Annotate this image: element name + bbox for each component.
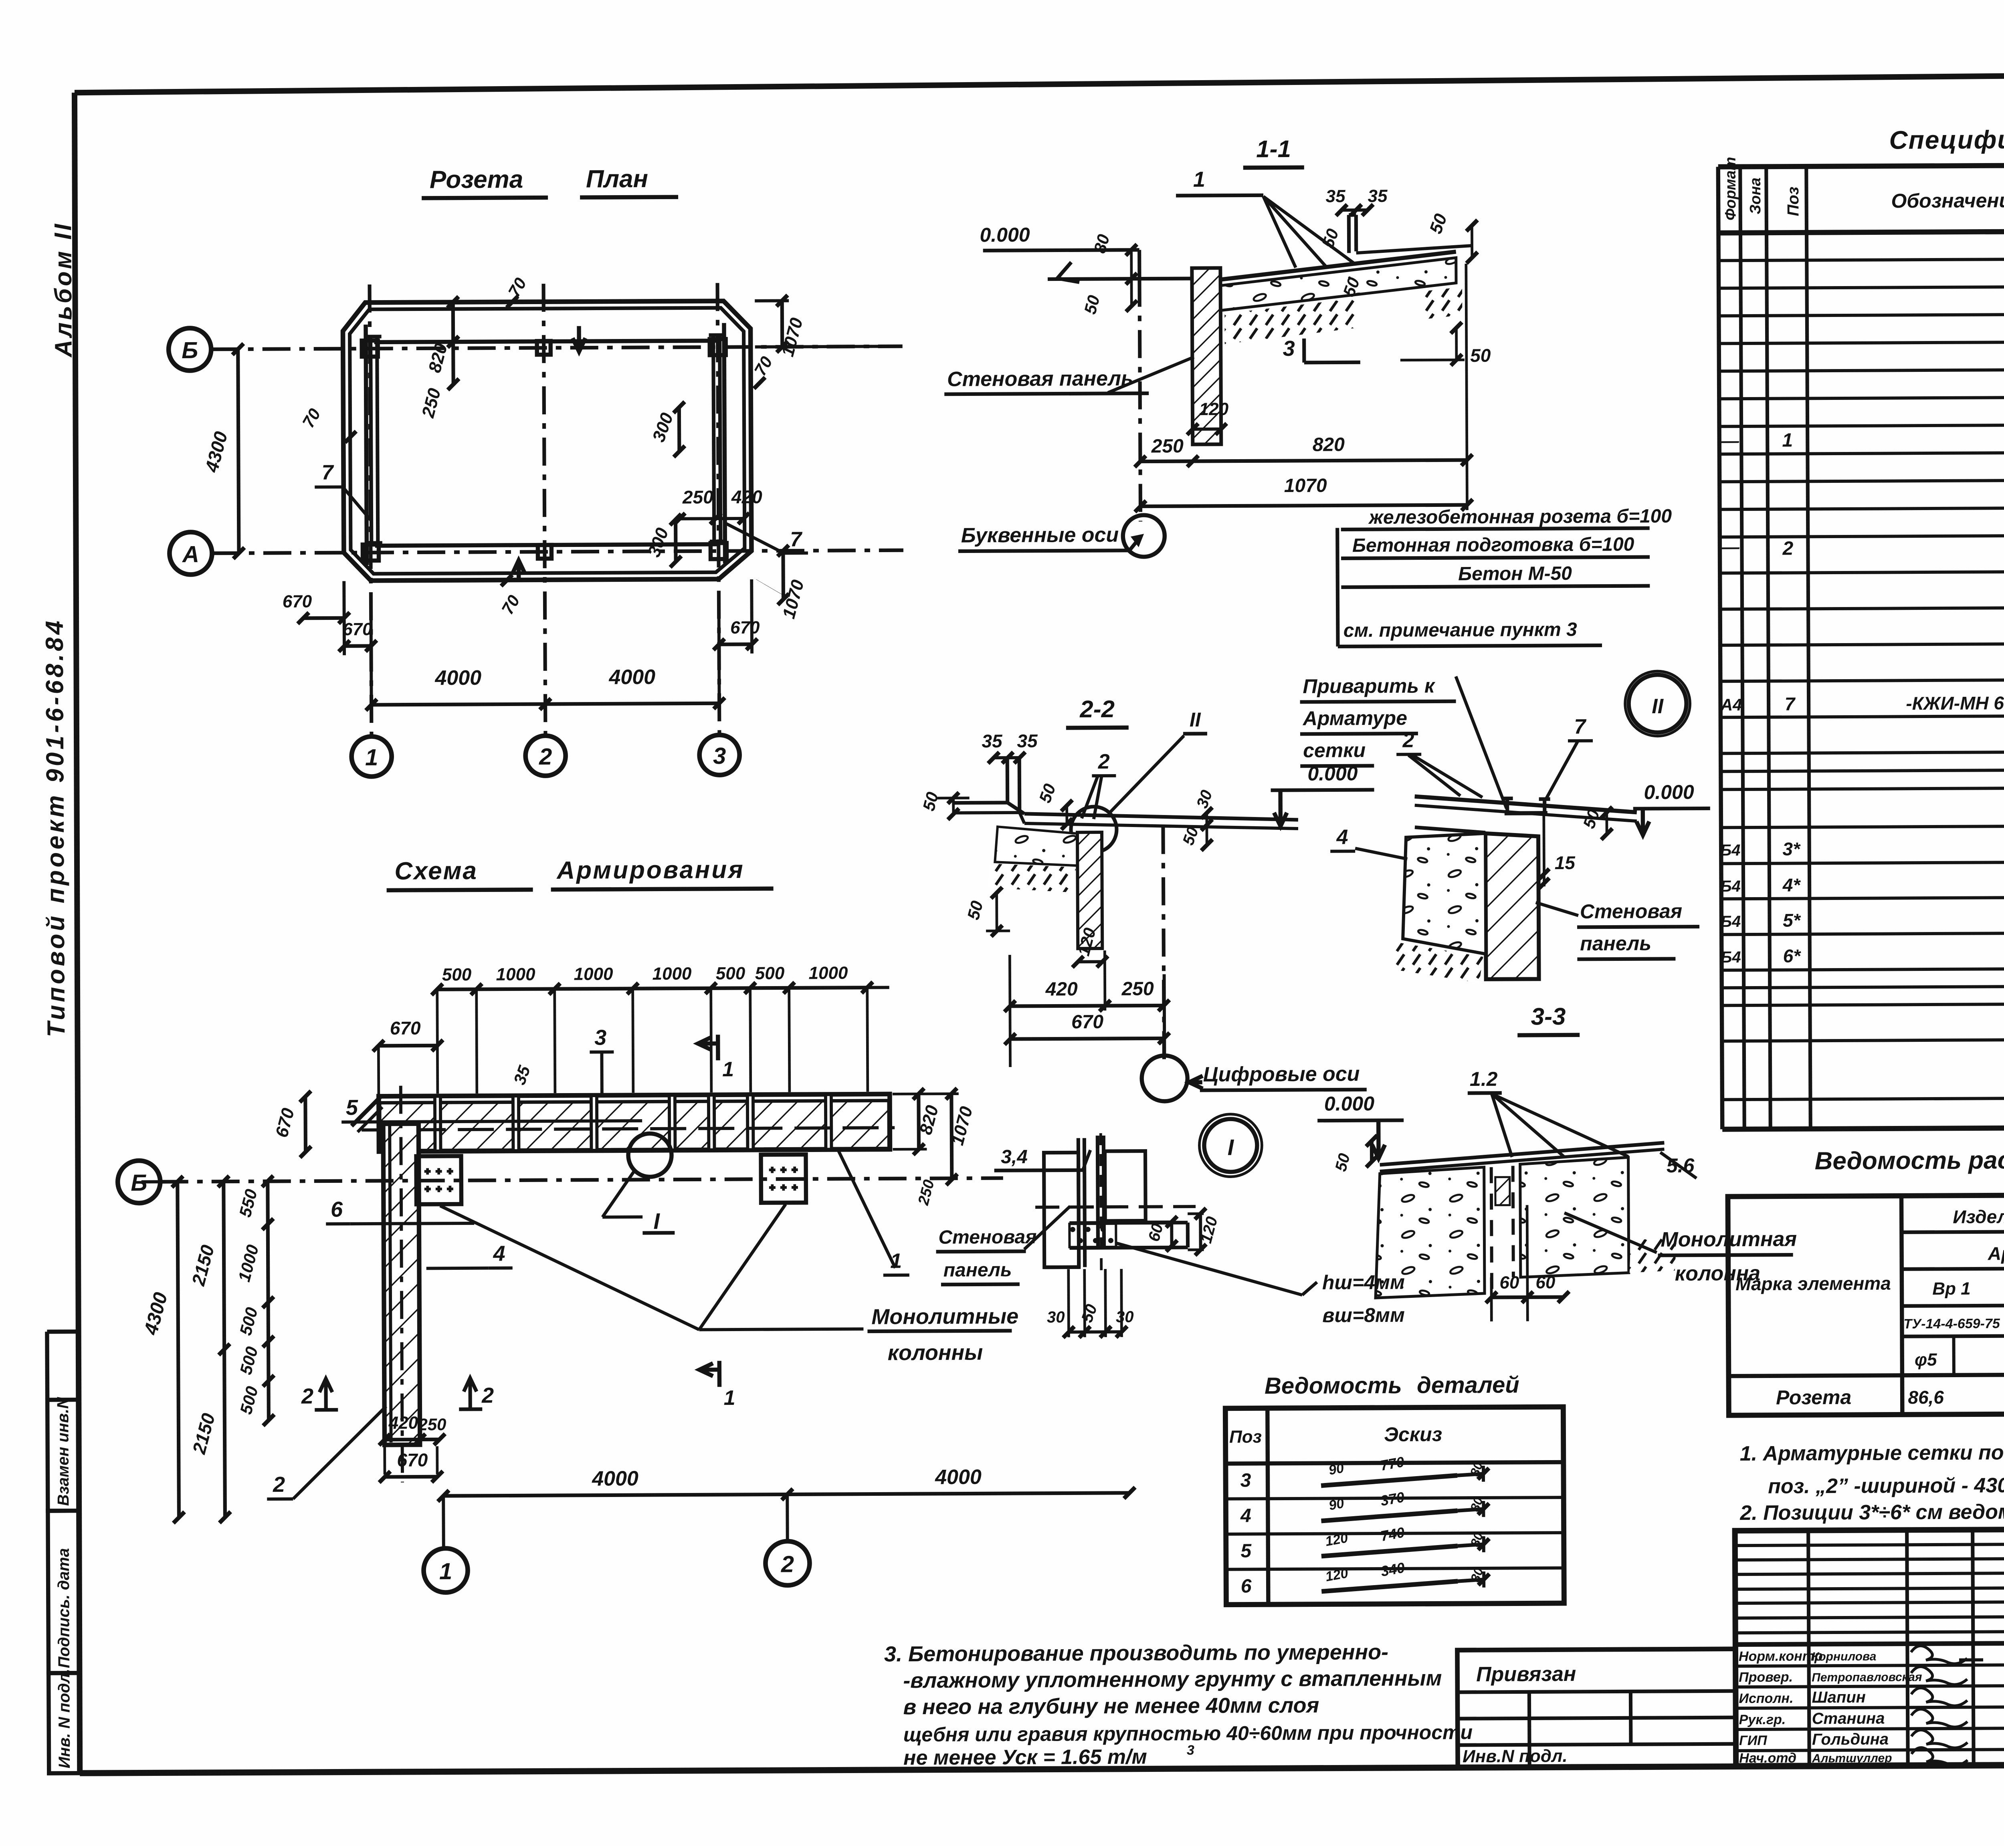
svg-text:4000: 4000: [935, 1465, 982, 1489]
svg-text:1.2: 1.2: [1470, 1068, 1498, 1090]
svg-text:250: 250: [418, 1415, 446, 1434]
svg-text:1000: 1000: [496, 964, 535, 984]
svg-text:Нач.отд: Нач.отд: [1739, 1751, 1796, 1766]
svg-text:2: 2: [1782, 538, 1793, 559]
svg-text:3: 3: [713, 743, 726, 769]
svg-text:4: 4: [1240, 1505, 1251, 1526]
svg-text:вш=8мм: вш=8мм: [1322, 1304, 1405, 1327]
svg-text:Стеновая: Стеновая: [938, 1227, 1036, 1248]
svg-text:Поз: Поз: [1784, 187, 1802, 216]
svg-text:Изделия арматурные: Изделия арматурные: [1953, 1206, 2004, 1227]
svg-text:щебня или гравия крупностью: щебня или гравия крупностью 40÷60мм при …: [903, 1721, 1473, 1746]
svg-text:Зона: Зона: [1747, 178, 1764, 214]
svg-text:500: 500: [716, 964, 745, 983]
svg-text:не менее Уск = 1.65 т/м: не менее Уск = 1.65 т/м: [903, 1745, 1147, 1770]
svg-text:Бетон М-50: Бетон М-50: [1458, 563, 1572, 585]
svg-text:колонны: колонны: [888, 1340, 983, 1365]
svg-text:35: 35: [1326, 186, 1346, 206]
svg-text:0.000: 0.000: [1324, 1092, 1375, 1115]
svg-text:820: 820: [1313, 434, 1345, 455]
svg-text:Стеновая панель: Стеновая панель: [947, 367, 1133, 391]
svg-text:2: 2: [781, 1551, 794, 1577]
svg-text:250: 250: [1151, 436, 1184, 457]
svg-text:5*: 5*: [1783, 910, 1801, 930]
svg-text:50: 50: [1470, 345, 1491, 366]
svg-text:2: 2: [539, 744, 552, 770]
svg-text:4000: 4000: [592, 1467, 638, 1491]
svg-text:деталей: деталей: [1417, 1372, 1519, 1398]
svg-text:—: —: [1721, 537, 1740, 557]
svg-text:см. примечание пункт 3: см. примечание пункт 3: [1343, 619, 1577, 642]
svg-text:2: 2: [273, 1473, 285, 1497]
svg-text:А4: А4: [1720, 695, 1742, 714]
svg-text:Привязан: Привязан: [1476, 1662, 1576, 1686]
svg-text:90: 90: [1327, 1461, 1345, 1478]
svg-text:670: 670: [390, 1017, 421, 1038]
svg-text:Провер.: Провер.: [1739, 1670, 1793, 1685]
svg-text:Арматура класса: Арматура класса: [1988, 1243, 2004, 1264]
svg-text:Розета: Розета: [430, 165, 523, 194]
svg-text:6: 6: [1241, 1576, 1252, 1597]
svg-text:4: 4: [1336, 825, 1348, 849]
svg-text:6: 6: [331, 1197, 343, 1221]
svg-text:250: 250: [682, 486, 713, 507]
svg-text:Схема: Схема: [394, 857, 478, 885]
svg-text:1000: 1000: [808, 963, 848, 983]
svg-text:сетки: сетки: [1303, 739, 1366, 762]
svg-text:1: 1: [722, 1058, 734, 1081]
svg-text:3*: 3*: [1782, 838, 1801, 859]
svg-text:2: 2: [301, 1384, 313, 1408]
svg-text:1: 1: [365, 744, 378, 771]
svg-text:Альбом II: Альбом II: [49, 222, 77, 358]
svg-text:Шапин: Шапин: [1812, 1689, 1866, 1707]
svg-text:670: 670: [730, 618, 760, 638]
svg-text:2: 2: [1402, 729, 1414, 752]
svg-text:Норм.контр: Норм.контр: [1739, 1648, 1823, 1664]
svg-text:Монолитные: Монолитные: [871, 1304, 1018, 1329]
svg-text:Стеновая: Стеновая: [1580, 900, 1682, 923]
svg-text:hш=4мм: hш=4мм: [1322, 1271, 1405, 1294]
svg-text:1000: 1000: [652, 964, 692, 984]
svg-text:86,6: 86,6: [1908, 1387, 1944, 1408]
svg-text:Спецификация: Спецификация: [1889, 125, 2004, 154]
svg-text:Взамен инв.N: Взамен инв.N: [54, 1397, 72, 1506]
svg-text:1-1: 1-1: [1256, 135, 1291, 162]
svg-text:Вр 1: Вр 1: [1932, 1279, 1971, 1299]
svg-text:поз. „2” -шириной - 430мм: поз. „2” -шириной - 430мм: [1768, 1474, 2004, 1498]
svg-text:7: 7: [1785, 693, 1796, 714]
svg-text:2-2: 2-2: [1079, 696, 1115, 722]
svg-text:3-3: 3-3: [1531, 1003, 1566, 1030]
svg-text:Инв.N подл.: Инв.N подл.: [1463, 1746, 1568, 1766]
svg-text:1: 1: [724, 1386, 735, 1410]
svg-text:Поз: Поз: [1229, 1427, 1262, 1447]
svg-text:670: 670: [1071, 1011, 1104, 1033]
svg-text:3: 3: [1187, 1743, 1194, 1758]
svg-text:3: 3: [594, 1025, 606, 1049]
svg-text:панель: панель: [1580, 932, 1651, 955]
svg-text:3: 3: [1240, 1470, 1251, 1491]
svg-text:4000: 4000: [434, 666, 481, 690]
svg-text:35: 35: [1017, 730, 1038, 751]
svg-text:5: 5: [1240, 1540, 1252, 1562]
svg-text:Бетонная подготовка б=100: Бетонная подготовка б=100: [1352, 534, 1634, 556]
svg-text:670: 670: [343, 619, 372, 639]
svg-text:железобетонная розета б=100: железобетонная розета б=100: [1368, 506, 1672, 528]
svg-text:7: 7: [790, 528, 802, 551]
svg-text:7: 7: [321, 461, 334, 484]
svg-text:1: 1: [1193, 167, 1205, 192]
svg-text:500: 500: [442, 965, 472, 985]
svg-text:Буквенные оси: Буквенные оси: [961, 523, 1119, 547]
svg-text:3. Бетонирование производить: 3. Бетонирование производить по умеренно…: [884, 1640, 1388, 1666]
svg-text:Б4: Б4: [1720, 878, 1741, 895]
svg-text:Приварить к: Приварить к: [1303, 674, 1436, 697]
svg-text:1: 1: [1782, 430, 1793, 451]
svg-text:Альтшуллер: Альтшуллер: [1812, 1751, 1892, 1765]
svg-text:φ5: φ5: [1915, 1350, 1937, 1370]
svg-text:Марка элемента: Марка элемента: [1735, 1273, 1891, 1294]
svg-text:500: 500: [755, 964, 785, 983]
svg-text:Подпись. дата: Подпись. дата: [55, 1548, 73, 1668]
svg-text:Инв. N подл.: Инв. N подл.: [55, 1668, 73, 1768]
svg-text:II: II: [1652, 695, 1664, 718]
svg-text:3,4: 3,4: [1001, 1146, 1028, 1168]
svg-text:Розета: Розета: [1776, 1386, 1851, 1409]
svg-text:—: —: [1721, 431, 1739, 451]
svg-text:Обозначение: Обозначение: [1891, 189, 2004, 212]
svg-text:Формат: Формат: [1722, 157, 1739, 220]
svg-text:Б4: Б4: [1721, 913, 1741, 930]
svg-text:5: 5: [346, 1095, 358, 1120]
svg-text:Корнилова: Корнилова: [1812, 1650, 1877, 1664]
svg-text:60: 60: [1535, 1273, 1556, 1292]
svg-text:Б4: Б4: [1721, 948, 1741, 966]
svg-text:0.000: 0.000: [980, 224, 1030, 246]
svg-text:1000: 1000: [574, 964, 613, 984]
svg-text:60: 60: [1499, 1273, 1519, 1293]
svg-text:Гольдина: Гольдина: [1812, 1731, 1889, 1749]
svg-text:30: 30: [1116, 1308, 1134, 1326]
svg-text:Типовой проект 901-6-68.84: Типовой проект 901-6-68.84: [41, 618, 71, 1037]
svg-text:2: 2: [481, 1384, 494, 1408]
svg-text:I: I: [653, 1208, 660, 1234]
svg-text:-влажному уплотненному гру: -влажному уплотненному грунту с втапленн…: [903, 1666, 1442, 1693]
svg-text:15: 15: [1555, 852, 1576, 873]
svg-text:Рук.гр.: Рук.гр.: [1739, 1712, 1786, 1728]
svg-text:Б: Б: [182, 337, 198, 363]
svg-text:30: 30: [1047, 1308, 1065, 1326]
svg-text:1070: 1070: [1284, 475, 1327, 496]
svg-text:Б4: Б4: [1720, 841, 1741, 859]
svg-text:250: 250: [1121, 978, 1154, 999]
svg-text:Исполн.: Исполн.: [1739, 1691, 1793, 1707]
svg-text:7: 7: [1574, 715, 1586, 738]
svg-text:2. Позиции 3*÷6* см ведомост: 2. Позиции 3*÷6* см ведомость деталей: [1739, 1499, 2004, 1525]
svg-text:Петропавловская: Петропавловская: [1812, 1670, 1922, 1684]
svg-text:4: 4: [493, 1242, 505, 1266]
svg-text:II: II: [1190, 708, 1201, 731]
svg-text:А: А: [182, 541, 199, 567]
svg-text:Цифровые оси: Цифровые оси: [1203, 1062, 1360, 1086]
svg-text:420: 420: [388, 1413, 418, 1432]
svg-text:4*: 4*: [1782, 874, 1801, 895]
svg-text:Армирования: Армирования: [556, 856, 745, 884]
svg-text:1: 1: [439, 1558, 453, 1584]
svg-text:0.000: 0.000: [1644, 781, 1694, 804]
svg-text:в него на глубину не мене: в него на глубину не менее 40мм слоя: [903, 1693, 1319, 1719]
svg-text:670: 670: [397, 1449, 428, 1470]
svg-text:Станина: Станина: [1812, 1710, 1885, 1728]
svg-text:ТУ-14-4-659-75: ТУ-14-4-659-75: [1903, 1316, 2000, 1332]
svg-text:420: 420: [1045, 978, 1078, 1000]
svg-text:120: 120: [1199, 399, 1229, 419]
svg-text:670: 670: [283, 592, 312, 611]
svg-text:35: 35: [1368, 186, 1388, 206]
svg-text:ГИП: ГИП: [1739, 1733, 1768, 1748]
svg-text:Ведомость: Ведомость: [1265, 1372, 1402, 1399]
svg-text:Эскиз: Эскиз: [1384, 1423, 1442, 1446]
svg-text:1. Арматурные сетки поз „1”: 1. Арматурные сетки поз „1” резать ширин…: [1740, 1440, 2004, 1465]
svg-text:6*: 6*: [1783, 945, 1802, 966]
svg-text:90: 90: [1327, 1496, 1345, 1513]
svg-text:35: 35: [982, 730, 1003, 751]
svg-text:-КЖИ-МН 6: -КЖИ-МН 6: [1906, 692, 2004, 714]
svg-text:2: 2: [1098, 750, 1110, 773]
svg-text:4000: 4000: [608, 666, 655, 689]
svg-text:панель: панель: [943, 1259, 1012, 1281]
svg-text:I: I: [1228, 1135, 1234, 1160]
svg-text:Ведомость расхода стали на: Ведомость расхода стали на элемент. кг: [1814, 1145, 2004, 1175]
svg-text:План: План: [586, 165, 648, 193]
svg-text:3: 3: [1283, 337, 1295, 361]
svg-text:Арматуре: Арматуре: [1302, 707, 1407, 730]
svg-text:420: 420: [731, 486, 762, 507]
